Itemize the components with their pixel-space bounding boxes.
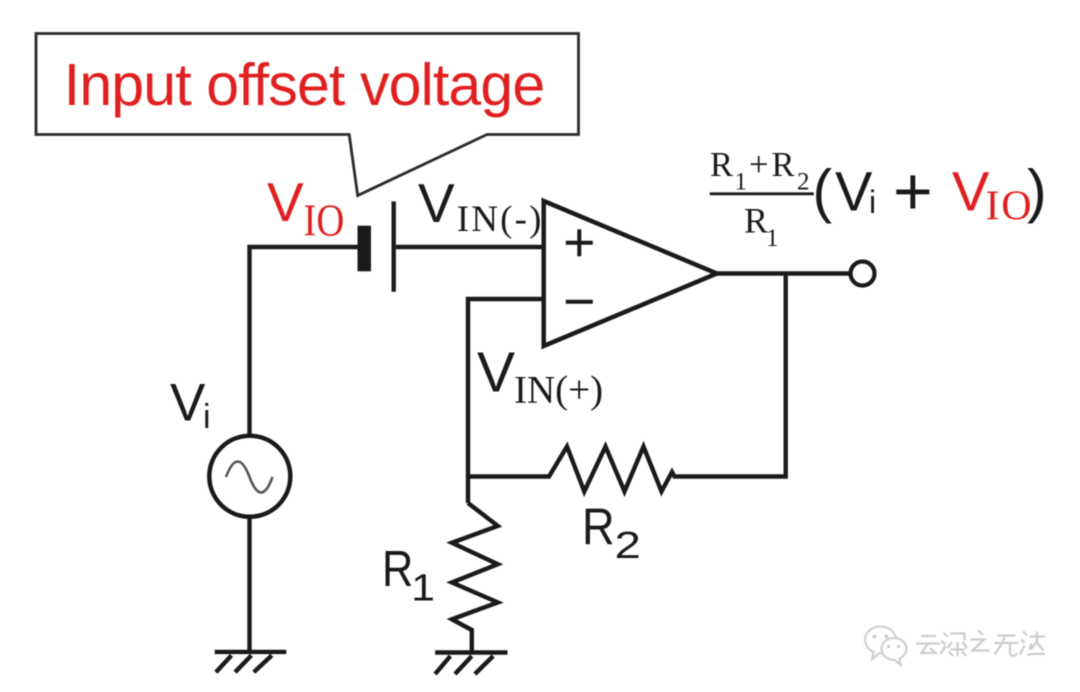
svg-text:1: 1 <box>766 225 779 252</box>
svg-text:IN(-): IN(-) <box>457 199 544 240</box>
svg-text:(: ( <box>813 158 833 224</box>
svg-text:IO: IO <box>304 197 345 246</box>
svg-text:2: 2 <box>615 524 641 566</box>
svg-text:V: V <box>835 160 873 223</box>
svg-text:IN(+): IN(+) <box>514 369 603 412</box>
svg-text:R: R <box>582 499 615 557</box>
svg-text:+: + <box>893 154 933 230</box>
svg-text:i: i <box>869 184 876 220</box>
svg-text:2: 2 <box>797 169 810 196</box>
svg-text:1: 1 <box>411 566 435 609</box>
svg-text:V: V <box>477 341 515 405</box>
svg-text:R: R <box>710 146 733 184</box>
svg-text:R: R <box>744 201 768 241</box>
svg-text:V: V <box>952 160 990 223</box>
svg-text:V: V <box>170 374 206 433</box>
svg-text:R: R <box>772 146 795 184</box>
svg-text:V: V <box>418 172 455 234</box>
svg-text:+: + <box>749 146 768 184</box>
svg-text:R: R <box>382 541 413 598</box>
svg-text:V: V <box>267 171 304 233</box>
svg-text:Input offset voltage: Input offset voltage <box>64 52 545 118</box>
svg-text:i: i <box>203 398 211 436</box>
svg-text:1: 1 <box>735 169 748 196</box>
svg-text:): ) <box>1027 158 1047 224</box>
